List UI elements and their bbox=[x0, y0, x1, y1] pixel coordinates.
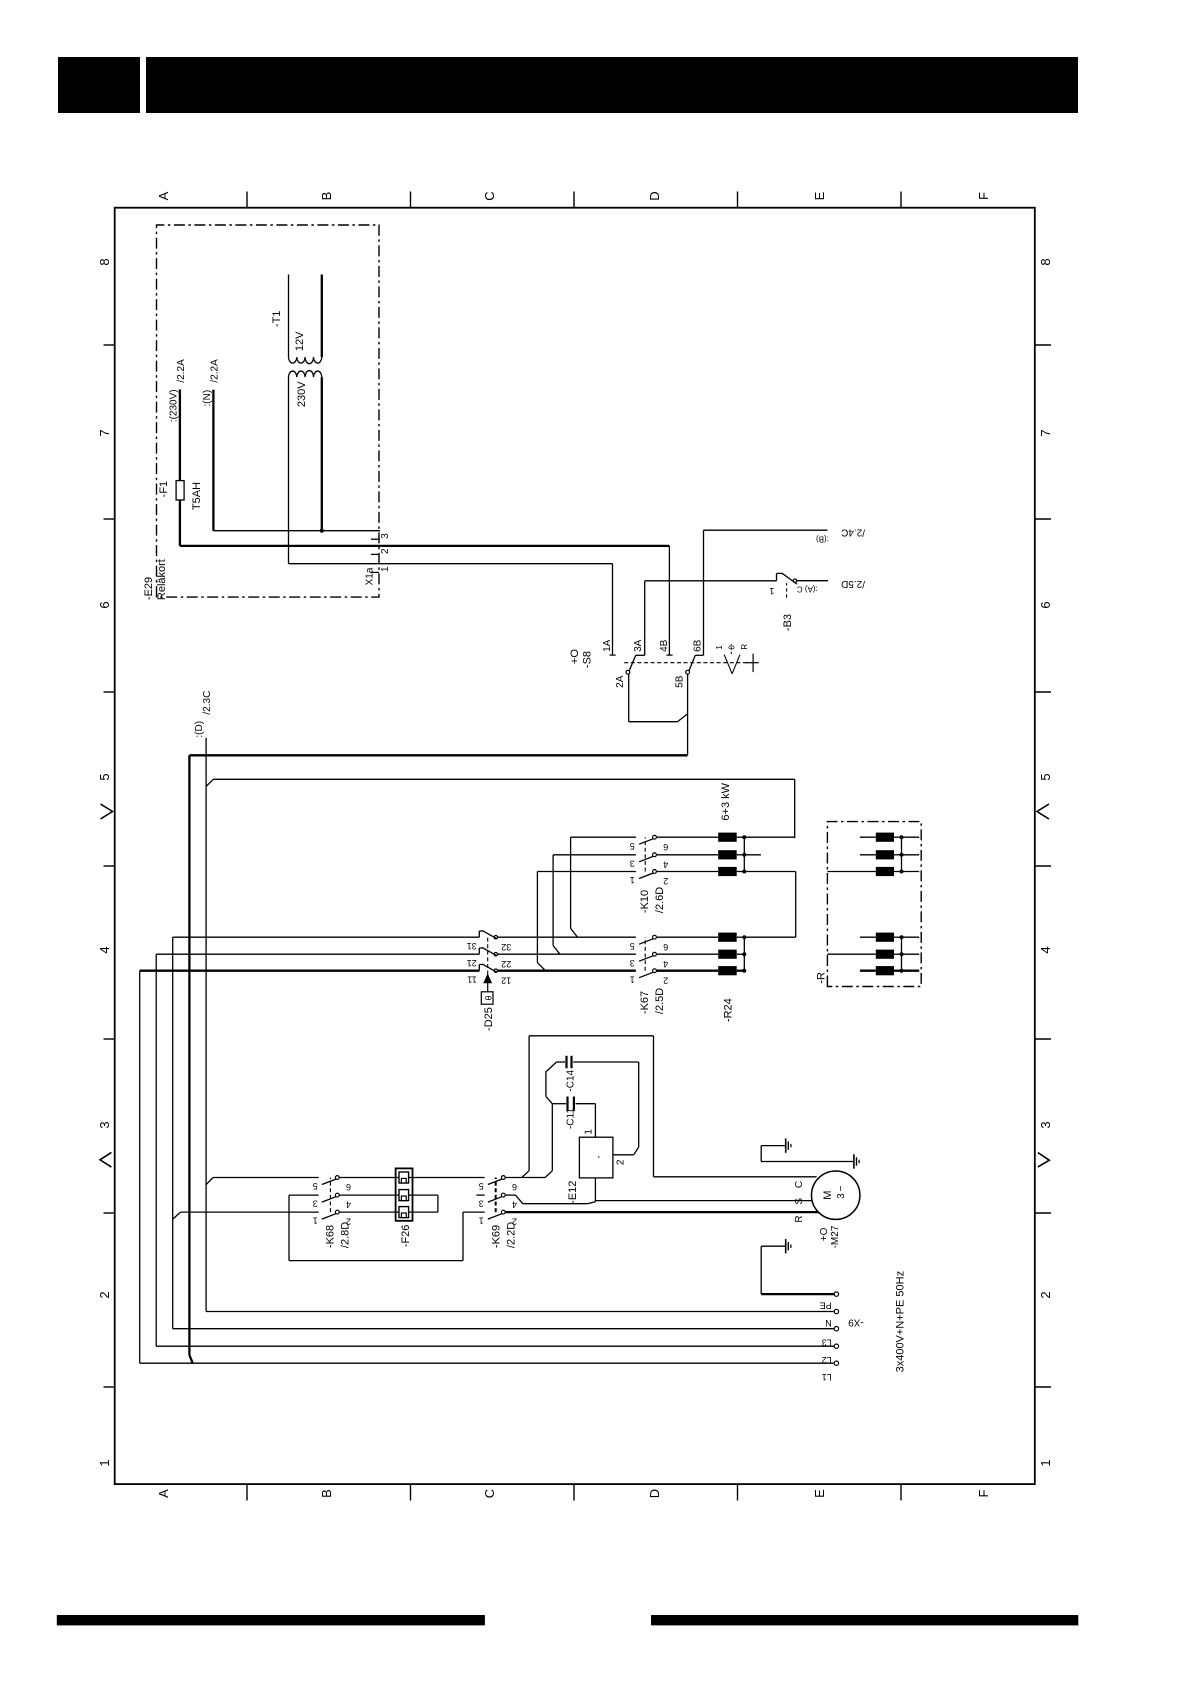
svg-text:N: N bbox=[825, 1318, 832, 1328]
svg-text:-E12: -E12 bbox=[567, 1181, 579, 1204]
svg-text:6B: 6B bbox=[693, 639, 704, 652]
svg-text:1: 1 bbox=[380, 566, 391, 572]
svg-text:4: 4 bbox=[346, 1200, 351, 1210]
svg-text:6: 6 bbox=[97, 601, 112, 608]
svg-text:1: 1 bbox=[313, 1216, 318, 1226]
svg-text:+O: +O bbox=[569, 649, 581, 664]
svg-text:/2.2A: /2.2A bbox=[210, 359, 221, 383]
svg-text:5: 5 bbox=[97, 773, 112, 780]
svg-text:5B: 5B bbox=[675, 675, 686, 688]
svg-text:C: C bbox=[482, 191, 497, 200]
svg-text:-R: -R bbox=[816, 972, 828, 984]
svg-text:R: R bbox=[794, 1215, 805, 1222]
svg-text:B: B bbox=[319, 192, 334, 201]
svg-text:-S8: -S8 bbox=[582, 651, 594, 668]
svg-text:E: E bbox=[812, 191, 827, 200]
svg-text:3: 3 bbox=[97, 1121, 112, 1128]
svg-text:-D25: -D25 bbox=[483, 1007, 495, 1031]
svg-text:~: ~ bbox=[836, 1186, 847, 1192]
svg-text:/2.2D: /2.2D bbox=[506, 1222, 518, 1248]
svg-text:1: 1 bbox=[769, 586, 774, 596]
svg-text:-C11: -C11 bbox=[565, 1108, 576, 1129]
svg-text:R: R bbox=[740, 644, 749, 650]
svg-text:-X9: -X9 bbox=[848, 1316, 864, 1327]
svg-text:-E29: -E29 bbox=[143, 577, 155, 600]
svg-text:-K68: -K68 bbox=[325, 1225, 337, 1248]
svg-text:L2: L2 bbox=[822, 1355, 832, 1365]
svg-text:3: 3 bbox=[630, 958, 635, 968]
svg-text:1: 1 bbox=[97, 1459, 112, 1466]
svg-text:D: D bbox=[647, 191, 662, 200]
svg-text:2: 2 bbox=[663, 876, 668, 886]
svg-text:6+3 kW: 6+3 kW bbox=[720, 782, 732, 820]
svg-text:-R24: -R24 bbox=[723, 998, 735, 1022]
svg-text:5: 5 bbox=[479, 1181, 484, 1191]
svg-text:11: 11 bbox=[467, 974, 476, 984]
svg-text:M: M bbox=[822, 1191, 834, 1200]
svg-text:1: 1 bbox=[479, 1216, 484, 1226]
svg-text:7: 7 bbox=[97, 429, 112, 436]
svg-text:3: 3 bbox=[479, 1199, 484, 1209]
svg-text:0: 0 bbox=[728, 645, 737, 650]
svg-text:1: 1 bbox=[630, 974, 635, 984]
svg-text:A: A bbox=[156, 1489, 171, 1498]
svg-text:-C14: -C14 bbox=[565, 1069, 576, 1091]
svg-text:Reläkort: Reläkort bbox=[156, 559, 168, 600]
svg-text:5: 5 bbox=[630, 941, 635, 951]
svg-text:E: E bbox=[812, 1489, 827, 1498]
svg-text:1: 1 bbox=[630, 875, 635, 885]
svg-text:/2.5D: /2.5D bbox=[654, 988, 666, 1014]
svg-text:1: 1 bbox=[584, 1129, 595, 1135]
svg-text:5: 5 bbox=[630, 841, 635, 851]
svg-text:21: 21 bbox=[467, 958, 477, 968]
svg-text:3: 3 bbox=[313, 1199, 318, 1209]
svg-text:3x400V+N+PE 50Hz: 3x400V+N+PE 50Hz bbox=[895, 1271, 907, 1373]
svg-text:/2.3C: /2.3C bbox=[202, 691, 213, 715]
svg-text:-M27: -M27 bbox=[830, 1225, 841, 1248]
svg-text:2A: 2A bbox=[615, 675, 626, 688]
svg-text:/2.4C: /2.4C bbox=[841, 527, 865, 538]
svg-text:-F1: -F1 bbox=[158, 481, 170, 498]
svg-text:C: C bbox=[482, 1489, 497, 1498]
svg-text:T5AH: T5AH bbox=[191, 482, 203, 510]
svg-text:B: B bbox=[319, 1489, 334, 1498]
svg-text:4B: 4B bbox=[659, 639, 670, 652]
svg-text:6: 6 bbox=[663, 842, 668, 852]
svg-text:C: C bbox=[794, 1181, 805, 1188]
svg-text::(N): :(N) bbox=[202, 390, 213, 407]
svg-text:2: 2 bbox=[380, 548, 391, 554]
svg-text:3A: 3A bbox=[633, 639, 644, 652]
svg-text:4: 4 bbox=[1038, 946, 1053, 953]
svg-text:3: 3 bbox=[630, 858, 635, 868]
svg-text:6: 6 bbox=[1038, 601, 1053, 608]
svg-text:3: 3 bbox=[380, 533, 391, 539]
svg-text:/2.5D: /2.5D bbox=[841, 578, 865, 589]
svg-text:F: F bbox=[976, 192, 991, 200]
svg-text:-F26: -F26 bbox=[400, 1225, 412, 1248]
svg-text:/2.8D: /2.8D bbox=[340, 1222, 352, 1248]
svg-text:31: 31 bbox=[467, 941, 477, 951]
svg-text:3: 3 bbox=[1038, 1121, 1053, 1128]
svg-text:230V: 230V bbox=[296, 381, 308, 407]
svg-text::(A) C: :(A) C bbox=[797, 585, 818, 594]
svg-text:12V: 12V bbox=[294, 331, 306, 351]
svg-text:32: 32 bbox=[501, 942, 511, 952]
svg-text:X1a: X1a bbox=[365, 567, 376, 585]
svg-text::(B): :(B) bbox=[816, 535, 829, 544]
svg-text::(D): :(D) bbox=[194, 721, 205, 738]
svg-text:3: 3 bbox=[836, 1193, 847, 1199]
svg-text:7: 7 bbox=[1038, 429, 1053, 436]
svg-text:2: 2 bbox=[97, 1291, 112, 1298]
svg-text:-T1: -T1 bbox=[271, 311, 283, 328]
svg-text:A: A bbox=[156, 191, 171, 200]
svg-text:/2.2A: /2.2A bbox=[176, 359, 187, 383]
svg-text:+O: +O bbox=[819, 1227, 830, 1241]
svg-text:D: D bbox=[647, 1489, 662, 1498]
svg-text:-K69: -K69 bbox=[491, 1225, 503, 1248]
svg-text:12: 12 bbox=[501, 975, 511, 985]
svg-text:4: 4 bbox=[97, 946, 112, 953]
svg-text:2: 2 bbox=[663, 975, 668, 985]
svg-text:5: 5 bbox=[313, 1181, 318, 1191]
svg-text:5: 5 bbox=[1038, 773, 1053, 780]
svg-text:2: 2 bbox=[616, 1159, 627, 1165]
svg-text:2: 2 bbox=[1038, 1291, 1053, 1298]
svg-text:-B3: -B3 bbox=[782, 614, 794, 631]
svg-text:L1: L1 bbox=[822, 1372, 832, 1382]
svg-text:θ: θ bbox=[484, 995, 494, 1000]
svg-text:-K67: -K67 bbox=[639, 991, 651, 1014]
svg-text:1: 1 bbox=[1038, 1459, 1053, 1466]
svg-text:/2.6D: /2.6D bbox=[654, 887, 666, 913]
svg-text:8: 8 bbox=[97, 258, 112, 265]
svg-text:4: 4 bbox=[663, 959, 668, 969]
svg-text:F: F bbox=[976, 1489, 991, 1497]
svg-text:8: 8 bbox=[1038, 258, 1053, 265]
svg-text:L3: L3 bbox=[822, 1338, 832, 1348]
svg-text:4: 4 bbox=[512, 1200, 517, 1210]
svg-text:PE: PE bbox=[820, 1301, 832, 1311]
svg-text:S: S bbox=[794, 1198, 805, 1205]
svg-text:6: 6 bbox=[663, 942, 668, 952]
svg-text:22: 22 bbox=[501, 959, 511, 969]
svg-text::(230V): :(230V) bbox=[169, 389, 180, 422]
svg-text:-K10: -K10 bbox=[639, 890, 651, 913]
svg-text:4: 4 bbox=[663, 859, 668, 869]
svg-text:1A: 1A bbox=[602, 639, 613, 652]
svg-text:6: 6 bbox=[512, 1182, 517, 1192]
svg-text:1: 1 bbox=[715, 645, 724, 650]
svg-text:6: 6 bbox=[346, 1182, 351, 1192]
